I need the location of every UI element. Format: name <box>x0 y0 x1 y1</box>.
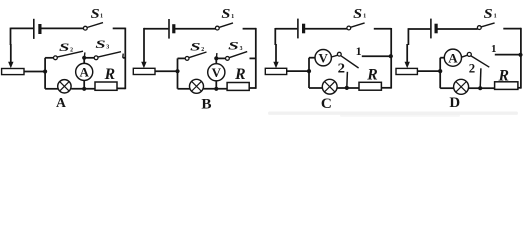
svg-text:R: R <box>104 66 115 83</box>
battery (cell) of circuit A <box>33 19 35 39</box>
wire switch-1 contact to right vertical (D) <box>495 54 521 56</box>
wire rheostat to node (C) <box>287 70 309 72</box>
node top-right (C) <box>389 54 393 58</box>
wire inner-left vertical (B) <box>177 58 179 88</box>
svg-text:2: 2 <box>338 61 346 76</box>
svg-text:R: R <box>498 67 509 84</box>
svg-text:S: S <box>228 38 239 52</box>
node bottom junction (A) <box>82 87 86 91</box>
voltmeter V of circuit B <box>208 64 225 81</box>
circuit B: wire top-left segment <box>144 28 168 30</box>
svg-text:B: B <box>201 96 211 113</box>
wire left vertical (D) <box>407 28 409 45</box>
wire node to resistor R (C) <box>347 87 359 89</box>
lamp L of circuit C <box>322 79 337 94</box>
svg-text:2: 2 <box>469 61 475 76</box>
wire from battery to switch S1 (A) <box>41 27 84 29</box>
wire left vertical (C) <box>274 28 276 45</box>
rheostat slider arrow (D) <box>405 62 410 68</box>
wire from S1 to top-right corner (C) <box>374 28 391 30</box>
wire rheostat to node (A) <box>24 71 45 73</box>
svg-text:2: 2 <box>70 47 73 53</box>
resistor R of circuit A <box>95 82 117 90</box>
switch S1 of circuit A <box>83 26 87 30</box>
wire rheostat to node (B) <box>155 70 178 72</box>
wire S3 to right vertical (B) <box>250 57 256 59</box>
circuit D: wire top-left segment <box>408 28 430 30</box>
wire ammeter to bottom node (A) <box>83 80 85 88</box>
wire ammeter to switch 1 pivot (D) <box>462 55 468 57</box>
battery (cell) of circuit D <box>430 19 432 39</box>
svg-text:S: S <box>484 6 493 21</box>
voltmeter V of circuit C <box>315 50 331 66</box>
wire bottom-left segment (D) <box>440 87 454 89</box>
wire left vertical (A) <box>10 28 12 45</box>
wire to voltmeter (C) <box>309 57 315 59</box>
wire lamp to node (D) <box>469 87 481 89</box>
wire bottom-left segment (A) <box>45 88 58 90</box>
svg-text:D: D <box>449 95 460 111</box>
resistor R of circuit C <box>359 82 381 90</box>
wire left vertical (B) <box>143 28 145 62</box>
svg-text:A: A <box>80 65 90 80</box>
node junction left (C) <box>307 69 311 73</box>
svg-text:R: R <box>366 66 377 83</box>
resistor R of circuit D <box>495 82 518 90</box>
wire bottom-left segment (B) <box>178 88 191 90</box>
svg-text:1: 1 <box>231 13 234 20</box>
battery (cell) of circuit C <box>297 19 299 39</box>
wire voltmeter to bottom node (B) <box>215 81 217 89</box>
wire node to S3 (B) <box>216 57 225 59</box>
wire node to resistor R (D) <box>480 87 494 89</box>
wire lamp to node (A) <box>71 88 95 90</box>
wire from S1 to top-right corner (B) <box>243 28 256 30</box>
wire right vertical (A) <box>124 28 126 90</box>
node junction left (A) <box>43 69 47 73</box>
wire bottom-left segment (C) <box>309 87 323 89</box>
svg-text:S: S <box>59 40 70 54</box>
fixed contact tick of S2 (A) <box>83 52 86 57</box>
lamp L of circuit B <box>190 79 204 93</box>
svg-text:S: S <box>221 6 230 21</box>
wire lamp to node (B) <box>204 88 228 90</box>
switch S1 of circuit B <box>215 26 219 30</box>
svg-text:S: S <box>353 6 362 21</box>
faint scan smudge artifact <box>268 112 518 115</box>
wire S3 tick to right vertical (A) <box>123 57 126 59</box>
node junction left (B) <box>175 69 179 73</box>
svg-text:3: 3 <box>106 45 109 51</box>
wire switch-1 contact to right vertical (C) <box>362 55 391 57</box>
ammeter A of circuit D <box>444 49 461 66</box>
wire R to bottom-right corner (A) <box>117 87 125 89</box>
wire from battery to switch S1 (B) <box>175 28 216 30</box>
circuit A: wire top-left segment <box>11 27 34 29</box>
node top-right (D) <box>518 53 522 57</box>
rheostat slider arrow (B) <box>141 62 146 68</box>
switch 1 of circuit C (open) <box>337 52 341 56</box>
lamp L of circuit D <box>454 79 469 94</box>
wire from S1 to top-right corner (A) <box>113 27 126 29</box>
rheostat slider arrow (A) <box>8 62 13 68</box>
svg-text:V: V <box>212 65 222 80</box>
svg-text:A: A <box>448 50 458 65</box>
svg-text:1: 1 <box>494 13 497 20</box>
svg-text:R: R <box>234 66 245 83</box>
wire right vertical (C) <box>390 28 392 89</box>
rheostat (variable resistor) of circuit D <box>396 68 417 74</box>
wire R to bottom-right corner (C) <box>381 87 391 89</box>
wire R to bottom-right corner (B) <box>249 87 256 89</box>
wire inner-left vertical (C) <box>308 58 310 88</box>
switch 2 lever of circuit C (open) <box>346 72 349 88</box>
wire from battery to switch S1 (C) <box>304 28 347 30</box>
ammeter A1 of circuit A <box>76 63 93 80</box>
wire top branch left segment (B) <box>178 57 186 59</box>
switch S1 of circuit D <box>477 26 481 30</box>
svg-text:A: A <box>56 95 66 110</box>
switch 1 of circuit D (open) <box>467 52 471 56</box>
rheostat (variable resistor) of circuit A <box>2 69 24 75</box>
wire inner-left vertical (A) <box>44 58 46 89</box>
node bottom junction (D) <box>478 86 482 90</box>
rheostat slider arrow (C) <box>273 62 278 68</box>
wire top branch left segment (A) <box>45 57 54 59</box>
wire voltmeter to switch 1 pivot (C) <box>331 55 337 57</box>
node between S2 and S3 (B) <box>214 56 218 60</box>
wire from S1 to top-right corner (D) <box>503 28 521 30</box>
wire inner-left vertical (D) <box>439 58 441 88</box>
fixed contact tick of S2 (B) <box>215 53 218 58</box>
wire node to ammeter (A) <box>83 58 85 64</box>
switch S1 of circuit C <box>347 26 351 30</box>
rheostat (variable resistor) of circuit C <box>265 68 286 74</box>
switch S3 of circuit A <box>94 56 98 60</box>
fixed contact tick of S3 (A) <box>122 54 124 58</box>
wire right vertical (B) <box>255 28 257 89</box>
svg-text:C: C <box>321 95 332 112</box>
svg-text:1: 1 <box>356 44 362 58</box>
svg-text:2: 2 <box>201 47 204 53</box>
svg-text:1: 1 <box>100 13 103 20</box>
wire to ammeter (D) <box>440 57 444 59</box>
resistor R of circuit B <box>227 83 249 91</box>
node between S2 and S3 (A) <box>82 56 86 60</box>
svg-text:1: 1 <box>491 43 497 55</box>
node junction left (D) <box>438 69 442 73</box>
svg-text:S: S <box>190 40 201 54</box>
circuit C: wire top-left segment <box>275 28 297 30</box>
switch S2 of circuit A <box>54 56 58 60</box>
wire rheostat to node (D) <box>417 70 440 72</box>
svg-text:S: S <box>95 37 106 51</box>
svg-text:1: 1 <box>363 13 366 20</box>
node bottom junction (B) <box>214 87 218 91</box>
switch S3 of circuit B <box>226 57 230 61</box>
battery (cell) of circuit B <box>168 19 170 39</box>
rheostat (variable resistor) of circuit B <box>133 68 155 74</box>
switch S2 of circuit B <box>185 57 189 61</box>
node bottom junction (C) <box>345 86 349 90</box>
wire node to voltmeter (B) <box>215 58 217 63</box>
svg-text:3: 3 <box>240 46 243 52</box>
wire R to bottom-right corner (D) <box>518 87 521 89</box>
wire from battery to switch S1 (D) <box>437 28 478 30</box>
wire S2-node to S3 (A) <box>84 57 94 59</box>
wire lamp to node (C) <box>337 87 347 89</box>
lamp L of circuit A <box>58 80 71 93</box>
svg-text:S: S <box>91 6 100 21</box>
wire right vertical (D) <box>520 28 522 89</box>
switch 2 lever of circuit D (open) <box>479 68 482 88</box>
svg-text:V: V <box>319 50 329 65</box>
